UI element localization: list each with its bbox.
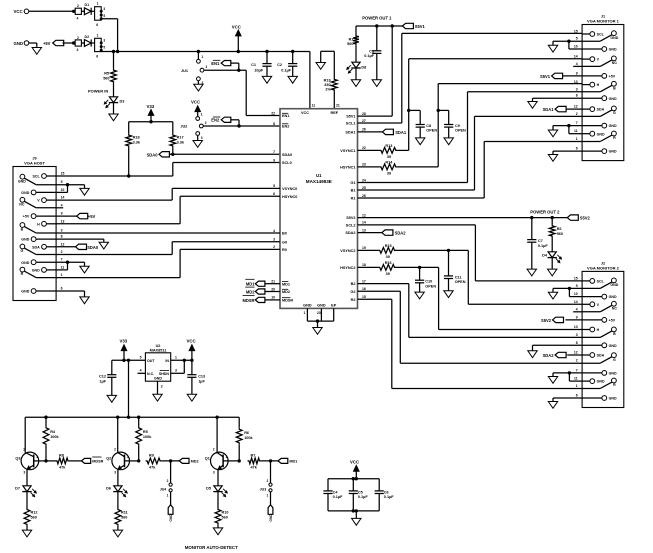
svg-text:1%: 1% xyxy=(325,88,331,92)
wire U1 pin28 to S5V1 rail xyxy=(358,115,393,117)
junction rail D1 xyxy=(116,50,119,53)
svg-text:GND: GND xyxy=(609,97,617,101)
J2 pin 7 GND xyxy=(582,372,602,374)
LED D6 xyxy=(114,486,122,492)
svg-text:560: 560 xyxy=(557,232,563,236)
svg-text:2: 2 xyxy=(273,245,275,249)
svg-text:2: 2 xyxy=(77,4,79,8)
svg-text:15: 15 xyxy=(574,30,578,34)
svg-text:2: 2 xyxy=(77,36,79,40)
wire J1 pin4 stub xyxy=(573,65,582,67)
tag S5V1 at J1 pin9 xyxy=(563,75,582,77)
svg-text:2: 2 xyxy=(576,359,578,363)
svg-text:SDA: SDA xyxy=(597,108,605,112)
svg-text:B: B xyxy=(21,228,24,232)
wire J9 R to U1 R0 xyxy=(56,277,180,279)
wire J9 G to U1 G0 xyxy=(56,254,172,256)
svg-text:22: 22 xyxy=(362,146,366,150)
ground at J2 pin7 xyxy=(548,377,557,384)
svg-text:R5: R5 xyxy=(143,430,148,434)
wire POWER OUT 1 rail xyxy=(356,25,402,27)
J2 pin 12 SDA xyxy=(582,354,590,356)
svg-text:S5V2: S5V2 xyxy=(541,318,552,323)
svg-text:GND: GND xyxy=(21,290,29,294)
svg-text:R8: R8 xyxy=(59,454,64,458)
wire D5 to R10 xyxy=(217,492,219,508)
svg-text:1: 1 xyxy=(127,455,129,459)
svg-text:SDA1: SDA1 xyxy=(345,131,355,135)
J9 pin 6 GND xyxy=(36,290,56,292)
svg-text:JU2: JU2 xyxy=(180,125,187,129)
wire Q2 collector to rail xyxy=(117,417,119,453)
svg-text:10: 10 xyxy=(574,292,578,296)
svg-text:+5V: +5V xyxy=(88,214,96,219)
wire Q2 emitter to D6 xyxy=(117,469,119,486)
svg-text:U2: U2 xyxy=(156,344,161,348)
svg-text:6: 6 xyxy=(576,147,578,151)
J9 pin 12 SDA xyxy=(47,246,56,248)
ground at R19 hook xyxy=(316,63,325,70)
J2 pin 13 H xyxy=(582,329,590,331)
svg-text:R14: R14 xyxy=(385,160,393,164)
resistor R4 100k xyxy=(45,417,47,426)
ground below R11 xyxy=(113,530,122,537)
svg-text:3: 3 xyxy=(114,471,116,475)
svg-text:IN: IN xyxy=(165,359,169,363)
svg-text:EP: EP xyxy=(331,303,337,307)
svg-text:13: 13 xyxy=(61,219,65,223)
svg-text:MD2: MD2 xyxy=(191,460,199,464)
junction R17 SDA0 xyxy=(171,153,174,156)
resistor R6 100k xyxy=(238,417,240,428)
svg-text:1: 1 xyxy=(267,494,269,498)
junction C10 tap xyxy=(418,266,421,269)
J2 pin 10 GND xyxy=(582,296,602,298)
svg-text:SDA2: SDA2 xyxy=(345,231,355,235)
svg-text:C13: C13 xyxy=(198,375,205,379)
wire main VCC rail xyxy=(100,50,102,51)
svg-text:47k: 47k xyxy=(251,465,258,469)
ground below C11 xyxy=(444,291,453,298)
wire D1 header to rail xyxy=(101,18,117,20)
J2 pin 11 GND xyxy=(582,380,590,382)
svg-text:11: 11 xyxy=(574,377,578,381)
svg-text:SCL2: SCL2 xyxy=(346,224,356,228)
svg-text:11: 11 xyxy=(312,104,316,108)
svg-text:R: R xyxy=(21,272,24,276)
wire J9 pin5/pin10 ground xyxy=(56,184,84,186)
svg-text:MAX8511: MAX8511 xyxy=(150,349,167,353)
svg-text:GND: GND xyxy=(609,344,617,348)
junction C11 tap xyxy=(447,249,450,252)
J1 pin 9 +5V xyxy=(582,75,602,77)
svg-text:VCC: VCC xyxy=(191,99,200,104)
svg-text:N.C.: N.C. xyxy=(147,372,154,376)
svg-text:11: 11 xyxy=(61,265,65,269)
svg-text:SDA: SDA xyxy=(32,245,40,249)
svg-text:3: 3 xyxy=(103,7,105,11)
capacitor C6 0.1uF xyxy=(378,479,380,491)
wire SCL2 U1 pin14 to J2 xyxy=(358,224,476,226)
ground at J9 pin7 xyxy=(80,266,89,273)
J1 pin 1 R xyxy=(582,141,600,143)
svg-text:C12: C12 xyxy=(99,375,106,379)
wire G2 U1 pin16 to J2 G xyxy=(358,290,401,292)
svg-text:0.1µF: 0.1µF xyxy=(333,495,343,499)
svg-text:4: 4 xyxy=(576,62,578,66)
svg-text:SCL: SCL xyxy=(597,280,605,284)
resistor R13 39 VSYNC1 xyxy=(358,149,380,151)
svg-text:4: 4 xyxy=(77,17,79,21)
J1 pin 11 GND xyxy=(582,133,590,135)
svg-text:D6: D6 xyxy=(106,487,111,491)
wire B1 U1 pin25 to J1 G xyxy=(358,189,475,191)
svg-text:3: 3 xyxy=(24,471,26,475)
svg-text:GND: GND xyxy=(14,41,24,46)
svg-text:NC: NC xyxy=(612,61,618,65)
svg-text:3: 3 xyxy=(103,39,105,43)
junction R18 SCL0 xyxy=(127,174,130,177)
svg-text:G0: G0 xyxy=(282,240,287,244)
junction JU3 xyxy=(269,459,272,462)
svg-text:22: 22 xyxy=(271,111,275,115)
svg-text:R13: R13 xyxy=(385,144,392,148)
transistor Q1 xyxy=(211,452,229,470)
J9 pin 4 NC xyxy=(36,207,56,209)
wire J1 pin7/pin11 ground xyxy=(553,125,582,127)
ground at J2 pin6 xyxy=(548,402,557,409)
svg-text:560: 560 xyxy=(31,516,37,520)
svg-text:15: 15 xyxy=(362,295,366,299)
svg-text:GND: GND xyxy=(18,179,26,183)
tag SDA2 at J2 pin12 xyxy=(567,354,582,356)
wire J2 pin8 ground xyxy=(533,344,583,346)
ground below D3 xyxy=(109,114,118,121)
svg-text:39: 39 xyxy=(386,272,390,276)
resistor R17 3.3k xyxy=(170,134,176,148)
svg-text:GND: GND xyxy=(21,261,29,265)
svg-text:1: 1 xyxy=(304,311,306,315)
svg-text:C2: C2 xyxy=(277,63,282,67)
svg-text:7: 7 xyxy=(61,258,63,262)
ground below C12 xyxy=(107,395,116,402)
wire D3 to ground xyxy=(113,103,115,114)
junction GND EP xyxy=(316,319,319,322)
capacitor C9 OPEN xyxy=(438,109,449,111)
junction rail V33 feed xyxy=(127,416,130,419)
J9 pin 14 V xyxy=(47,199,56,201)
connector J1 VGA MONITOR 1 body xyxy=(582,25,624,161)
svg-text:14: 14 xyxy=(574,55,578,59)
svg-text:25: 25 xyxy=(362,186,366,190)
svg-text:5: 5 xyxy=(103,46,105,50)
svg-text:10: 10 xyxy=(574,45,578,49)
svg-text:SDA0: SDA0 xyxy=(282,153,292,157)
svg-text:OPEN: OPEN xyxy=(455,280,466,284)
svg-text:POWER IN: POWER IN xyxy=(88,89,108,94)
svg-text:MONITOR AUTO-DETECT: MONITOR AUTO-DETECT xyxy=(185,545,238,550)
svg-text:9: 9 xyxy=(273,158,275,162)
J2 pin 9 +5V xyxy=(582,319,602,321)
wire D8 to ground xyxy=(355,68,357,79)
svg-text:3: 3 xyxy=(201,136,203,140)
node D1 anode xyxy=(72,10,75,13)
ground below R10 xyxy=(213,528,222,535)
wire U1 pin12 S5V2 to POWER OUT 2 xyxy=(358,217,568,219)
wire R17 to SDA0 line xyxy=(172,147,174,154)
svg-text:R2: R2 xyxy=(557,227,562,231)
svg-text:5: 5 xyxy=(61,180,63,184)
svg-text:VGA MONITOR 1: VGA MONITOR 1 xyxy=(587,18,620,23)
svg-text:G: G xyxy=(613,111,616,115)
svg-text:13: 13 xyxy=(362,228,366,232)
svg-text:16: 16 xyxy=(362,287,366,291)
wire GND to ground xyxy=(29,42,37,44)
wire U1 GND pins to ground xyxy=(306,308,308,321)
svg-text:4: 4 xyxy=(576,307,578,311)
resistor R18 3.3k xyxy=(126,134,132,148)
svg-text:MD2: MD2 xyxy=(246,290,255,295)
svg-text:9: 9 xyxy=(61,212,63,216)
svg-text:GND: GND xyxy=(609,48,617,52)
svg-text:5: 5 xyxy=(273,184,275,188)
svg-text:3: 3 xyxy=(273,238,275,242)
svg-text:EN2: EN2 xyxy=(282,125,289,129)
resistor R10 560 xyxy=(215,508,221,525)
svg-text:12: 12 xyxy=(574,351,578,355)
svg-text:SDA: SDA xyxy=(597,354,605,358)
wire J1 pin6 ground xyxy=(553,150,582,152)
wire SCL1 U1 pin27 to J1 xyxy=(358,122,402,124)
svg-text:1: 1 xyxy=(201,113,203,117)
junction rail R5 xyxy=(112,50,115,53)
svg-text:8: 8 xyxy=(273,122,275,126)
capacitor C4 0.1uF xyxy=(327,479,329,491)
svg-text:7: 7 xyxy=(576,368,578,372)
svg-text:Q2: Q2 xyxy=(106,457,111,461)
wire EN2 tag to EN2 line xyxy=(231,119,239,121)
svg-text:HSYNC0: HSYNC0 xyxy=(282,195,297,199)
svg-text:13: 13 xyxy=(574,80,578,84)
svg-text:SDA0: SDA0 xyxy=(147,152,159,157)
junction C9 tap xyxy=(437,109,440,112)
svg-text:H: H xyxy=(597,328,600,332)
svg-text:26: 26 xyxy=(362,194,366,198)
svg-text:6: 6 xyxy=(576,394,578,398)
svg-text:12: 12 xyxy=(362,213,366,217)
svg-text:1: 1 xyxy=(226,455,228,459)
J9 pin 9 +5V xyxy=(36,215,56,217)
svg-text:17: 17 xyxy=(362,279,366,283)
svg-text:S5V1: S5V1 xyxy=(415,24,426,29)
tag SDA0 at J9 pin12 xyxy=(56,246,75,248)
svg-text:C1: C1 xyxy=(251,63,256,67)
svg-text:8: 8 xyxy=(576,94,578,98)
ground below C8 xyxy=(416,138,425,145)
wire bypass bottom rail xyxy=(328,510,379,512)
J1 pin 4 NC xyxy=(582,65,600,67)
J9 pin 1 R xyxy=(36,277,56,279)
svg-text:MDSR: MDSR xyxy=(282,299,293,303)
svg-text:39: 39 xyxy=(387,155,391,159)
junction V33 down xyxy=(127,359,130,362)
wire R1 U1 pin26 to J1 R xyxy=(358,197,485,199)
ground below R12 xyxy=(22,530,31,537)
wire J2 pin7/pin11 ground xyxy=(553,372,582,374)
op-amp U1 MAX14983E body xyxy=(280,109,358,309)
wire SDA0 to U1 pin7 xyxy=(169,153,280,155)
svg-text:S5V2: S5V2 xyxy=(580,216,591,221)
svg-text:D1: D1 xyxy=(85,3,90,7)
svg-text:15: 15 xyxy=(61,172,65,176)
svg-text:47k: 47k xyxy=(59,465,66,469)
svg-text:B: B xyxy=(613,332,616,336)
junction top VCC xyxy=(355,477,358,480)
svg-text:R15: R15 xyxy=(385,244,392,248)
capacitor C13 1uF xyxy=(191,360,193,374)
junction Q3 base xyxy=(44,459,47,462)
svg-text:SCL1: SCL1 xyxy=(346,122,356,126)
svg-text:8: 8 xyxy=(61,235,63,239)
J9 pin 8 GND xyxy=(36,238,56,240)
svg-text:12: 12 xyxy=(574,105,578,109)
wire R5b to Q2 base xyxy=(138,446,140,461)
J2 pin 2 G xyxy=(582,362,600,364)
svg-text:2: 2 xyxy=(161,385,163,389)
tag SDA2 at U1 pin13 xyxy=(358,232,382,234)
svg-text:R11: R11 xyxy=(121,511,128,515)
wire Q1 collector to rail xyxy=(216,417,218,453)
junction S5V1 drop xyxy=(391,24,394,27)
svg-text:MD1: MD1 xyxy=(246,282,255,287)
tag SDA1 at U1 pin26 xyxy=(358,131,383,133)
svg-text:C10: C10 xyxy=(425,280,432,284)
resistor R9 47k xyxy=(146,458,162,464)
transistor Q2 xyxy=(112,452,130,470)
resistor R5 560 xyxy=(113,52,115,69)
junction bottom C5 xyxy=(352,509,355,512)
wire VCC to D1 xyxy=(29,10,74,12)
J1 pin 7 GND xyxy=(582,125,602,127)
J2 pin 5 GND xyxy=(582,287,600,289)
svg-text:VSYNC1: VSYNC1 xyxy=(340,149,355,153)
svg-text:OPEN: OPEN xyxy=(425,285,436,289)
svg-text:MD2: MD2 xyxy=(282,290,290,294)
svg-text:MDSR: MDSR xyxy=(92,460,103,464)
svg-text:18: 18 xyxy=(362,263,366,267)
svg-text:11: 11 xyxy=(574,129,578,133)
ground below C13 xyxy=(187,394,196,401)
svg-text:G: G xyxy=(613,358,616,362)
svg-text:21: 21 xyxy=(271,280,275,284)
J9 pin 7 GND xyxy=(36,261,56,263)
LED D4 xyxy=(548,252,556,258)
svg-text:Q3: Q3 xyxy=(15,457,20,461)
svg-text:B1: B1 xyxy=(351,189,356,193)
svg-text:0.1µF: 0.1µF xyxy=(358,495,368,499)
svg-text:1: 1 xyxy=(167,494,169,498)
svg-text:20: 20 xyxy=(271,287,275,291)
junction V33 arrow xyxy=(122,359,125,362)
svg-text:7: 7 xyxy=(273,150,275,154)
svg-text:2: 2 xyxy=(61,250,63,254)
svg-text:REF: REF xyxy=(330,111,338,115)
svg-text:MD1: MD1 xyxy=(289,460,297,464)
J1 pin 6 GND xyxy=(582,150,602,152)
svg-text:C11: C11 xyxy=(455,275,462,279)
svg-text:R17: R17 xyxy=(177,136,184,140)
svg-text:0.1µF: 0.1µF xyxy=(364,54,374,58)
wire R18 to SCL0 line xyxy=(128,147,130,176)
svg-text:6: 6 xyxy=(273,192,275,196)
svg-text:4: 4 xyxy=(77,48,79,52)
svg-text:MD1: MD1 xyxy=(282,282,290,286)
ground below U1 xyxy=(313,328,322,335)
jumper JU4 xyxy=(170,461,172,483)
connector J9 VGA HOST body xyxy=(13,167,56,301)
svg-text:14: 14 xyxy=(574,300,578,304)
svg-text:4: 4 xyxy=(273,229,275,233)
junction JU4 xyxy=(169,459,172,462)
ground at J2 pin8 xyxy=(528,351,537,358)
svg-text:C8: C8 xyxy=(426,124,431,128)
svg-text:27: 27 xyxy=(362,119,366,123)
wire R10 to ground xyxy=(217,525,219,528)
ground at J1 pin5 xyxy=(548,45,557,52)
svg-text:560: 560 xyxy=(103,77,109,81)
svg-text:1: 1 xyxy=(97,2,99,6)
svg-text:GND: GND xyxy=(609,397,617,401)
svg-text:D7: D7 xyxy=(15,487,20,491)
svg-text:2: 2 xyxy=(167,479,169,483)
tag SDA1 at J1 pin12 xyxy=(567,108,583,110)
resistor R5b 100k xyxy=(138,417,140,426)
tag S5V2 power out 2 xyxy=(567,215,578,220)
ground at J9 pin5 xyxy=(80,188,89,195)
svg-text:R2: R2 xyxy=(351,298,356,302)
wire J9 V to U1 VSYNC0 xyxy=(56,199,172,201)
svg-text:EN2: EN2 xyxy=(211,118,220,123)
svg-text:VCC: VCC xyxy=(14,9,23,14)
ground below C9 xyxy=(444,138,453,145)
svg-text:+5V: +5V xyxy=(43,41,51,46)
junction EN1 xyxy=(237,69,240,72)
wire J9 pin4 stub xyxy=(56,207,63,209)
ground below C7 xyxy=(527,269,536,276)
capacitor C1 10uF xyxy=(265,50,268,53)
wire bypass top rail xyxy=(328,478,379,480)
svg-text:VCC: VCC xyxy=(187,339,196,344)
wire R12 to ground xyxy=(26,526,28,530)
svg-text:SDA1: SDA1 xyxy=(543,107,555,112)
svg-text:R10: R10 xyxy=(222,511,229,515)
svg-text:3.3k: 3.3k xyxy=(177,141,185,145)
svg-text:GND: GND xyxy=(154,377,162,381)
svg-text:VCC: VCC xyxy=(301,111,309,115)
svg-text:R18: R18 xyxy=(133,136,140,140)
ground at J1 pin6 xyxy=(548,155,557,162)
ground below C1 xyxy=(262,76,271,83)
ground below JU2 xyxy=(193,141,202,148)
svg-text:0.1µF: 0.1µF xyxy=(281,69,291,73)
wire HSYNC2 to J2 H xyxy=(396,266,439,268)
svg-text:1µF: 1µF xyxy=(198,379,205,383)
svg-text:S5V2: S5V2 xyxy=(346,216,355,220)
svg-text:0.1µF: 0.1µF xyxy=(384,495,394,499)
resistor R8 47k xyxy=(56,458,70,464)
svg-text:4: 4 xyxy=(140,369,142,373)
LED D5 xyxy=(214,486,222,492)
